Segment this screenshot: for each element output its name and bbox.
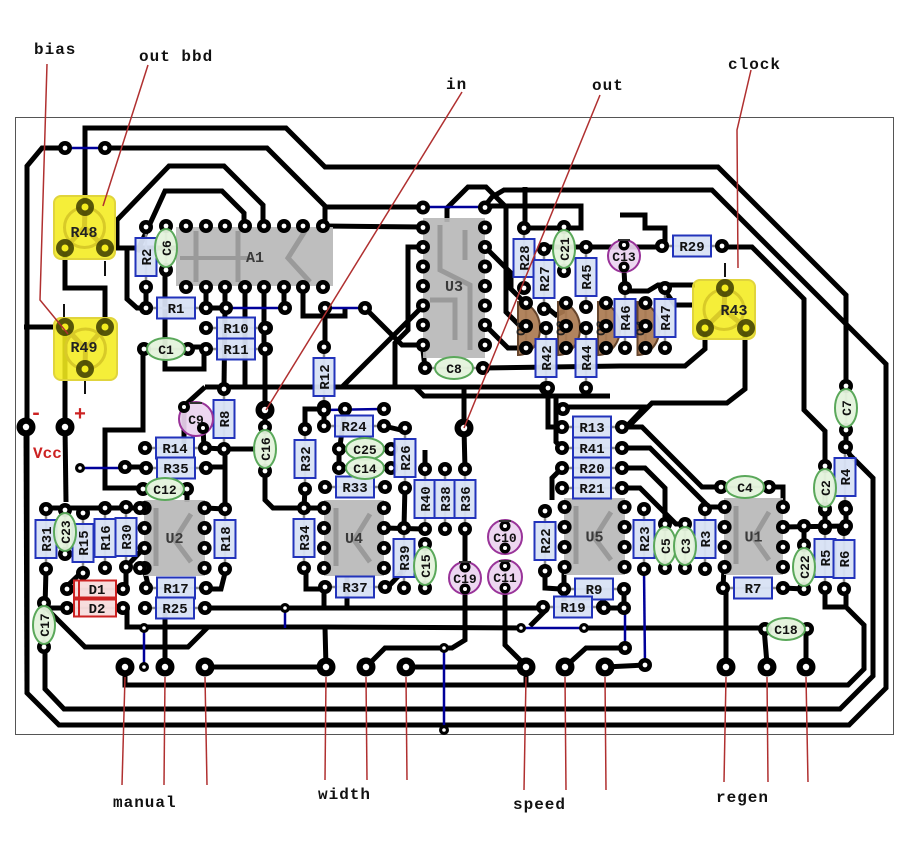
- svg-text:R48: R48: [70, 225, 97, 242]
- svg-text:C18: C18: [774, 623, 798, 638]
- svg-text:A1: A1: [246, 250, 264, 267]
- svg-text:R32: R32: [299, 446, 315, 471]
- svg-text:R43: R43: [720, 303, 747, 320]
- svg-text:U3: U3: [445, 279, 463, 296]
- svg-text:R22: R22: [539, 528, 555, 553]
- svg-text:out bbd: out bbd: [139, 48, 213, 66]
- svg-text:R37: R37: [342, 581, 367, 597]
- svg-text:Vcc: Vcc: [33, 445, 62, 463]
- svg-text:U4: U4: [345, 531, 363, 548]
- svg-text:R28: R28: [518, 245, 534, 270]
- svg-text:bias: bias: [34, 41, 76, 59]
- svg-text:R42: R42: [540, 345, 556, 370]
- svg-text:R34: R34: [298, 525, 314, 550]
- svg-text:in: in: [446, 76, 467, 94]
- svg-text:C1: C1: [158, 343, 174, 358]
- svg-text:R10: R10: [223, 322, 248, 338]
- svg-text:C13: C13: [612, 250, 636, 265]
- svg-text:C16: C16: [259, 437, 274, 461]
- svg-text:R40: R40: [419, 486, 435, 511]
- svg-text:C3: C3: [679, 538, 694, 554]
- svg-text:R16: R16: [99, 525, 115, 550]
- svg-text:C4: C4: [737, 481, 753, 496]
- svg-text:R19: R19: [560, 601, 585, 617]
- svg-text:C19: C19: [453, 572, 477, 587]
- svg-text:R29: R29: [679, 240, 704, 256]
- svg-text:-: -: [30, 403, 42, 426]
- svg-text:R39: R39: [398, 545, 414, 570]
- svg-text:R25: R25: [162, 602, 187, 618]
- svg-text:width: width: [318, 786, 371, 804]
- svg-text:R26: R26: [399, 445, 415, 470]
- svg-text:R13: R13: [579, 421, 604, 437]
- svg-text:+: +: [74, 404, 86, 427]
- svg-text:C21: C21: [558, 237, 573, 261]
- svg-text:R17: R17: [163, 582, 188, 598]
- svg-text:R14: R14: [162, 442, 187, 458]
- svg-text:R38: R38: [439, 486, 455, 511]
- svg-text:R15: R15: [77, 530, 93, 555]
- svg-text:R36: R36: [459, 486, 475, 511]
- svg-text:C9: C9: [188, 413, 204, 428]
- svg-text:C6: C6: [160, 240, 175, 256]
- svg-text:regen: regen: [716, 789, 769, 807]
- svg-text:U2: U2: [165, 531, 183, 548]
- svg-text:C14: C14: [353, 462, 377, 477]
- svg-text:U1: U1: [744, 530, 762, 547]
- svg-text:C11: C11: [493, 571, 517, 586]
- svg-text:R12: R12: [318, 364, 334, 389]
- svg-text:D1: D1: [89, 583, 106, 599]
- svg-text:R8: R8: [218, 411, 234, 428]
- svg-text:R11: R11: [223, 343, 248, 359]
- svg-text:R41: R41: [579, 442, 604, 458]
- svg-text:U5: U5: [585, 530, 603, 547]
- svg-text:R35: R35: [163, 462, 188, 478]
- svg-text:R47: R47: [659, 305, 675, 330]
- svg-text:R21: R21: [579, 482, 604, 498]
- svg-text:D2: D2: [89, 602, 106, 618]
- svg-text:C12: C12: [153, 483, 177, 498]
- svg-text:R49: R49: [70, 340, 97, 357]
- svg-text:C25: C25: [353, 443, 377, 458]
- svg-text:R7: R7: [745, 582, 762, 598]
- svg-text:R27: R27: [538, 266, 554, 291]
- svg-text:C10: C10: [493, 531, 517, 546]
- svg-text:R3: R3: [699, 531, 715, 548]
- svg-text:C15: C15: [419, 554, 434, 578]
- svg-text:C2: C2: [819, 480, 834, 496]
- svg-text:C23: C23: [59, 520, 74, 544]
- svg-text:R44: R44: [580, 345, 596, 370]
- svg-text:R46: R46: [619, 305, 635, 330]
- svg-text:R1: R1: [168, 302, 185, 318]
- svg-text:R2: R2: [140, 249, 156, 266]
- svg-text:manual: manual: [113, 794, 177, 812]
- svg-text:C7: C7: [840, 400, 855, 416]
- svg-text:R4: R4: [839, 469, 855, 486]
- svg-text:R33: R33: [342, 481, 367, 497]
- svg-text:C17: C17: [38, 613, 53, 636]
- svg-text:R24: R24: [341, 420, 366, 436]
- svg-text:C22: C22: [798, 555, 813, 579]
- svg-text:R30: R30: [120, 524, 136, 549]
- svg-text:speed: speed: [513, 796, 566, 814]
- svg-text:out: out: [592, 77, 624, 95]
- svg-text:C5: C5: [659, 538, 674, 554]
- svg-text:R20: R20: [579, 462, 604, 478]
- svg-text:clock: clock: [728, 56, 781, 74]
- svg-text:C8: C8: [446, 362, 462, 377]
- svg-text:R23: R23: [638, 526, 654, 551]
- svg-text:R6: R6: [838, 551, 854, 568]
- svg-text:R18: R18: [219, 526, 235, 551]
- svg-text:R45: R45: [580, 264, 596, 289]
